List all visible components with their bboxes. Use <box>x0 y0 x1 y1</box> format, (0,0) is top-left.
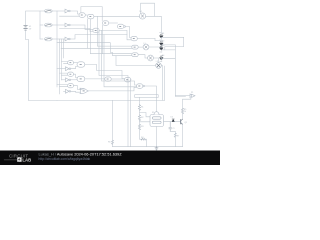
svg-text:R4: R4 <box>141 137 143 139</box>
gate G5 AND <box>131 36 137 41</box>
wire bus bottom long <box>57 99 165 101</box>
wire IM2 out to T2 <box>71 79 77 81</box>
wire battery top to switch bus <box>26 11 44 25</box>
wire switch input bus <box>39 11 41 39</box>
transistor Q1 <box>181 119 187 124</box>
gate T3 OR <box>80 88 88 93</box>
wire L3 feed <box>116 56 156 66</box>
svg-text:D2: D2 <box>162 40 164 42</box>
wire L3 out down to bus <box>161 66 162 101</box>
wire nested corner 4 <box>104 35 137 87</box>
inverter IM3 <box>66 89 71 93</box>
wire N2 out to lamp L2 <box>138 55 147 58</box>
wire C2 out down to bus <box>130 79 132 81</box>
LED D3 <box>160 45 165 53</box>
wire battery bottom down-left rail <box>26 30 29 100</box>
wire S2 out to T2 <box>74 74 78 77</box>
wire M1 top loop <box>141 3 155 16</box>
wire G5 out to LED rail <box>137 38 155 40</box>
wire to SW3 <box>40 38 43 40</box>
svg-text:http://circuitlab.com/c/fagq6y: http://circuitlab.com/c/fagq6ya4fdak <box>39 157 91 161</box>
svg-text:R2: R2 <box>141 117 143 119</box>
wire R2-R3 <box>139 121 141 125</box>
battery V1 <box>24 25 32 30</box>
wire vertical bus tap B <box>59 39 61 94</box>
svg-text:C1: C1 <box>172 128 174 130</box>
wire D4 bottom to rail <box>159 59 176 63</box>
svg-text:D5: D5 <box>171 117 173 119</box>
switch SW3 <box>44 37 52 41</box>
wire R5 to Q1 collector <box>182 114 184 120</box>
diode D6 on base wire <box>171 117 175 122</box>
wire N3 out <box>144 86 156 112</box>
resistor R1 <box>138 105 143 111</box>
wire INV1 out <box>60 11 80 16</box>
wire N1 out to lamp L1 <box>138 46 143 48</box>
resistor R7 <box>174 133 179 137</box>
wire R7 to rail <box>174 137 176 146</box>
lamp L1 <box>143 43 149 50</box>
wire T1 out elbow down <box>85 65 125 79</box>
wire G1 out to G2 <box>85 14 87 16</box>
gate S2 AND <box>68 72 74 76</box>
wire drop x130.5 <box>130 80 132 147</box>
wire left drop <box>112 100 114 140</box>
wire vertical bus tap A <box>56 11 58 87</box>
wire vertical bus tap C <box>61 39 63 80</box>
wire nested corner 2 <box>99 30 128 146</box>
wire taps to S3 <box>57 85 68 87</box>
gate G1 AND <box>79 13 85 17</box>
svg-text:D1: D1 <box>162 33 164 35</box>
wire bottom rail <box>113 146 183 148</box>
wire D1 top stub <box>160 33 162 34</box>
wire G4 out <box>99 30 131 39</box>
svg-text:R7: R7 <box>177 135 179 137</box>
motor M1 circle <box>139 11 145 19</box>
wire INV3 out to gate5 <box>70 35 127 39</box>
wire R1-R2 <box>139 110 141 115</box>
svg-text:red: red <box>160 60 163 63</box>
inverter IM2 <box>66 78 71 82</box>
wire IM1 out to T1 <box>71 67 77 69</box>
wire C1g out <box>111 78 124 80</box>
wire M1 out to D1 <box>146 16 162 33</box>
gate N1 NAND <box>132 45 138 49</box>
wire nested corner 3 <box>102 30 137 85</box>
wire rail to P1 <box>175 95 190 97</box>
gate C2 AND <box>125 78 131 82</box>
gate G3 AND <box>102 21 108 26</box>
wire Q1 emitter to rail <box>182 124 184 146</box>
resistor R4 <box>141 137 145 140</box>
wire bus bump rect <box>135 95 159 98</box>
capacitor C1 <box>169 122 175 132</box>
LED D2 <box>160 40 165 48</box>
gate G4 AND <box>93 28 99 33</box>
svg-text:Lukas_H / Autosave 2024-06-20T: Lukas_H / Autosave 2024-06-20T17:52:51.6… <box>39 151 123 156</box>
gate N3 NAND <box>137 84 145 89</box>
wire long mid line 1 <box>57 43 132 56</box>
relay K1 <box>150 112 164 127</box>
wire INV2 out to G4 <box>60 25 93 32</box>
wire IM3 out to T3 <box>71 90 80 93</box>
LED D1 <box>160 33 165 41</box>
lamp L2 <box>148 55 154 61</box>
gate T1 AND <box>77 62 85 67</box>
switch SW2 <box>44 23 52 27</box>
svg-text:R6: R6 <box>108 142 110 144</box>
wire T2 out <box>85 78 105 80</box>
switch SW1 <box>44 9 52 13</box>
ground GND <box>155 147 158 150</box>
inverter INV3 <box>65 37 70 41</box>
wire relay left feeds <box>140 113 151 122</box>
svg-text:R3: R3 <box>141 126 143 128</box>
inverter INV1 <box>65 9 70 13</box>
wire resistor chain top <box>139 97 141 104</box>
svg-text:R1: R1 <box>141 107 143 109</box>
wire N1 feed from v97.3 <box>97 16 132 46</box>
svg-text:5V: 5V <box>29 29 32 31</box>
resistor R3 <box>138 124 143 130</box>
gate C1 AND <box>105 77 111 81</box>
svg-text:D3: D3 <box>162 45 164 47</box>
connector P1 <box>190 92 195 98</box>
wire SW2 to INV2 <box>52 24 65 26</box>
wire relay bottom pin <box>156 127 158 147</box>
wire taps to S2 <box>60 73 68 75</box>
gate S3 AND <box>68 84 74 88</box>
inverter IM1 <box>66 67 71 71</box>
wire G5 to D2 top <box>155 39 161 42</box>
wire D2 bottom to rail <box>161 44 175 46</box>
wire N4 out down to gate5 <box>125 27 131 38</box>
wire SW1 to INV1 <box>52 10 65 12</box>
LED D4 <box>160 55 165 63</box>
wire D1 bottom U bump to D3 top <box>161 37 183 50</box>
wire L1 out to D3 top <box>149 45 161 48</box>
wire lamp L2 out to D4 top <box>153 56 161 58</box>
wire G3 out to N4 <box>109 22 118 24</box>
lamp L3 <box>156 61 162 69</box>
wire feedback loop top <box>81 7 102 21</box>
gate N4 NAND <box>118 24 126 29</box>
wire taps to S1 <box>62 62 68 64</box>
wire tap to IM1 <box>57 68 66 70</box>
wire R3 down to R4 <box>140 130 142 139</box>
wire S3 out to T3 <box>74 86 81 90</box>
svg-text:L3: L3 <box>156 61 158 63</box>
svg-text:L1: L1 <box>144 43 146 45</box>
wire bottom feed rail <box>29 99 58 101</box>
svg-text:K1: K1 <box>152 112 154 114</box>
svg-text:P1: P1 <box>191 92 193 94</box>
resistor R5 <box>181 108 186 114</box>
wire R4 to rail <box>146 139 147 147</box>
svg-text:Q1: Q1 <box>185 122 188 124</box>
wire vertical bus tap D <box>63 39 65 58</box>
inverter INV2 <box>65 23 70 27</box>
wire R6 to rail <box>112 144 114 147</box>
resistor R6 <box>108 140 114 144</box>
svg-text:red: red <box>160 50 163 53</box>
wire SW3 to INV3 <box>52 38 65 40</box>
wire D3 bottom to rail <box>161 49 175 51</box>
wire right bus vertical <box>164 66 166 100</box>
wire G2 out to M1 <box>94 15 139 17</box>
wire right rail down to P1 <box>175 45 185 97</box>
wire C1 elbow to R7 <box>170 131 175 133</box>
svg-text:LAB: LAB <box>22 158 31 163</box>
logo LAB row <box>4 159 17 161</box>
gate T2 AND <box>77 76 85 81</box>
footer bar <box>0 151 220 166</box>
resistor R2 <box>138 115 143 121</box>
wire T3 out to N3 <box>88 87 136 91</box>
wire P1 down to R5 <box>183 98 191 108</box>
wire cross vertical a <box>87 19 89 49</box>
wire S1 out to T1 <box>74 62 78 64</box>
svg-text:1k: 1k <box>184 111 186 113</box>
gate N2 NAND <box>132 53 138 57</box>
gate S1 AND <box>68 61 74 65</box>
gate G2 AND <box>88 14 94 18</box>
wire tap to IM2 <box>62 79 66 81</box>
wire tap to IM3 <box>64 90 66 92</box>
wire to SW2 <box>40 24 43 26</box>
wire long mid line 2 <box>61 47 132 49</box>
wire long mid line 3 <box>91 25 132 53</box>
wire cross vertical b <box>90 19 92 54</box>
wire relay right pin to base <box>164 121 181 123</box>
svg-text:D4: D4 <box>162 55 164 57</box>
